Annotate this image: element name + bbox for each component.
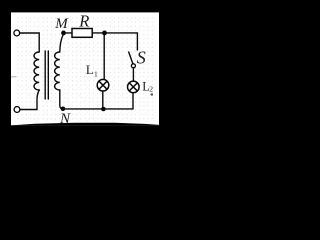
- terminal bottom-left: [14, 107, 20, 113]
- wire switch to lamp L2: [132, 68, 134, 81]
- secondary coil: [55, 52, 60, 90]
- terminal top-left: [14, 30, 20, 36]
- wire lamp L1 down to rail: [102, 91, 104, 109]
- lamp L2 circle: [128, 81, 140, 93]
- faint edge mark: [11, 76, 17, 77]
- switch blade: [129, 52, 133, 64]
- wire resistor to corner, top rail: [92, 33, 137, 50]
- wire node M down to secondary coil: [60, 34, 64, 52]
- switch contact circle: [131, 64, 135, 68]
- node N dot: [61, 107, 66, 112]
- junction dot top: [102, 31, 107, 36]
- svg-text:1: 1: [94, 69, 98, 78]
- bottom bar uneven top edge: [11, 123, 159, 126]
- bottom rail N to L2 corner: [62, 108, 133, 110]
- white figure area: [11, 12, 159, 125]
- node M dot: [61, 31, 66, 36]
- wire primary coil to bottom terminal: [20, 90, 39, 110]
- transformer core: [44, 51, 46, 99]
- wire junction down to lamp L1: [103, 33, 105, 79]
- lamp L1 circle: [97, 79, 109, 91]
- black surround: [0, 0, 172, 150]
- primary coil: [34, 52, 39, 90]
- wire top-left to primary coil: [20, 33, 40, 52]
- svg-text:N: N: [59, 111, 71, 127]
- junction dot bottom: [101, 107, 106, 112]
- wire lamp L2 down to rail: [132, 93, 134, 109]
- svg-text:L: L: [86, 63, 94, 77]
- speckle below L2 label: [151, 93, 153, 95]
- faint dot noise: [16, 16, 156, 122]
- wire secondary coil to node N: [60, 90, 64, 109]
- svg-text:R: R: [78, 11, 89, 30]
- lamp L1 cross: [99, 81, 107, 89]
- resistor R body: [72, 29, 92, 38]
- svg-text:2: 2: [149, 85, 153, 94]
- svg-text:S: S: [137, 47, 146, 67]
- wire node M to resistor: [63, 32, 72, 34]
- lamp L2 cross: [129, 83, 137, 91]
- svg-text:M: M: [54, 16, 69, 32]
